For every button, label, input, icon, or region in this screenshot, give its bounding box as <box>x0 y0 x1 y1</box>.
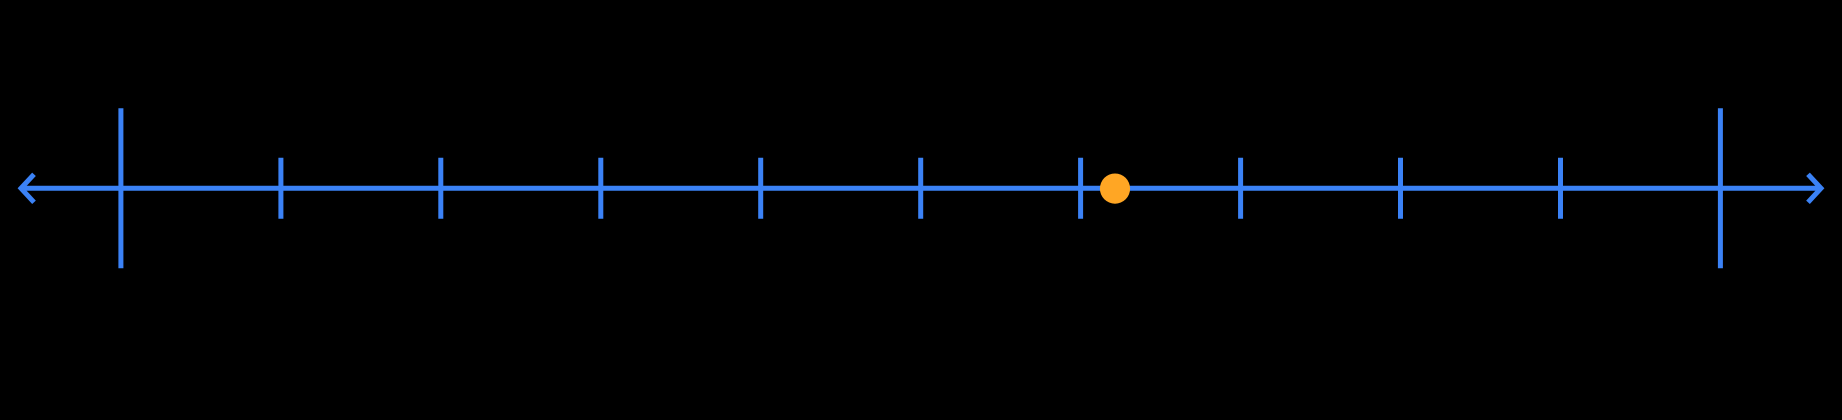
node tick-6 <box>1078 158 1083 219</box>
node tick-0 <box>118 108 123 268</box>
node tick-4 <box>758 158 763 219</box>
node point-6.2 <box>1100 174 1130 204</box>
node tick-9 <box>1558 158 1563 219</box>
node right-arrow <box>1808 174 1821 202</box>
node tick-3 <box>598 158 603 219</box>
node left-arrow <box>21 174 34 202</box>
node tick-7 <box>1238 158 1243 219</box>
wire <box>20 186 1822 191</box>
node tick-8 <box>1398 158 1403 219</box>
node tick-1 <box>278 158 283 219</box>
node tick-2 <box>438 158 443 219</box>
node tick-5 <box>918 158 923 219</box>
node tick-10 <box>1718 108 1723 268</box>
